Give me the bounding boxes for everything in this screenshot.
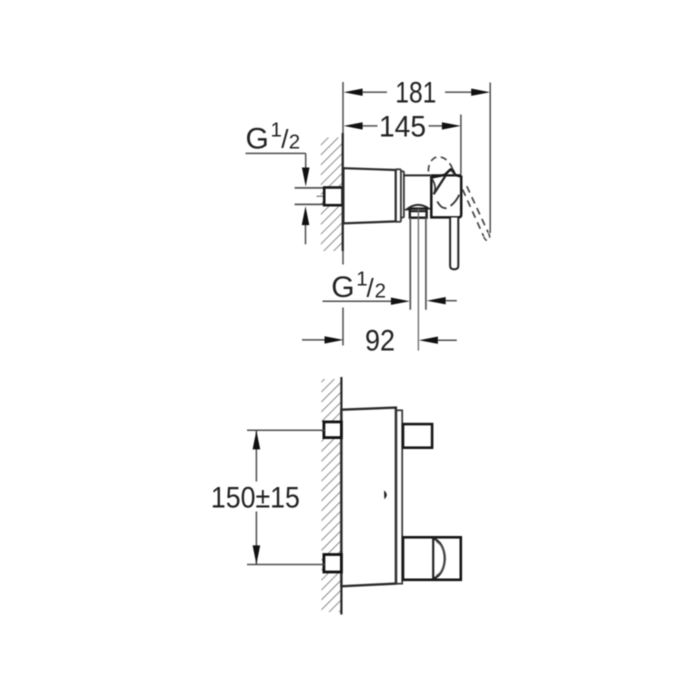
cartridge head with lever (solid)	[431, 169, 461, 217]
dimension 145 right arrow	[442, 122, 461, 129]
lever front curve	[432, 178, 436, 194]
G1/2 down arrow	[302, 168, 310, 187]
svg-text:145: 145	[379, 111, 426, 144]
inlet centerline dash	[317, 195, 325, 197]
bottom inlet nipple	[324, 555, 342, 573]
dimension 92 left tail	[302, 339, 325, 341]
G1/2 middle right tail	[446, 300, 457, 302]
G1/2 middle leader line	[323, 300, 392, 302]
svg-text:/: /	[367, 273, 375, 303]
dashed lever rod line 1	[463, 190, 484, 237]
neck top edge	[404, 174, 431, 176]
extension line right of 181	[489, 83, 491, 234]
svg-text:150±15: 150±15	[211, 482, 300, 515]
handle dome chord	[432, 539, 434, 579]
inlet nipple block	[324, 188, 342, 206]
mixer body (top view)	[343, 168, 395, 223]
dimension 150 top extension line	[247, 429, 325, 431]
outlet pipe right edge	[425, 218, 427, 310]
wall face / extension line	[342, 82, 344, 265]
dimension 145 line	[362, 125, 378, 127]
dimension 181 line	[362, 91, 387, 93]
G1/2 lower leader vertical	[305, 225, 307, 244]
head smile curve left	[437, 202, 446, 209]
dashed lever knob (up position)	[428, 157, 452, 172]
svg-text:181: 181	[395, 77, 436, 110]
faceplate band	[396, 410, 402, 583]
G1/2 leader underline	[246, 152, 306, 154]
head top edge line	[431, 174, 461, 176]
outlet nut	[410, 209, 427, 218]
inlet pipe bottom line	[295, 203, 325, 205]
outlet centerline	[417, 209, 419, 351]
head smile curve right	[451, 195, 460, 206]
neck bottom edge	[404, 209, 409, 211]
top inlet nipple	[324, 422, 342, 438]
wall face line	[340, 377, 342, 615]
G1/2 leader vertical	[305, 153, 307, 168]
head top-right curve	[451, 171, 455, 177]
dimension 181 right arrow	[471, 89, 490, 96]
lever diagonal edge	[434, 175, 446, 194]
dimension 150 bottom extension line	[247, 564, 325, 566]
wall hatching (top view)	[321, 138, 343, 252]
svg-text:2: 2	[289, 131, 300, 154]
body ring band	[396, 169, 404, 222]
svg-text:G: G	[331, 271, 354, 304]
svg-text:2: 2	[375, 280, 386, 303]
dimension 145 left arrow	[344, 122, 363, 129]
dashed lever rod line 2	[467, 186, 488, 232]
handle (bottom view)	[403, 537, 461, 580]
G1/2 middle left-pointing arrow	[427, 297, 446, 304]
G1/2 up arrow	[302, 206, 310, 225]
handle dome arc inner	[436, 542, 445, 576]
outlet dome cap	[408, 205, 429, 209]
outlet pipe left edge	[409, 218, 411, 310]
extension line right of 145	[460, 115, 462, 175]
svg-text:G: G	[246, 123, 269, 156]
G1/2 middle right-pointing arrow	[391, 298, 410, 305]
dimension 150 down arrow	[253, 545, 261, 564]
top connection block	[403, 424, 432, 448]
small marker dot on body	[384, 490, 387, 499]
dimension 150 up arrow	[253, 430, 261, 449]
wall hatching (bottom view)	[321, 379, 341, 612]
svg-text:92: 92	[365, 325, 395, 358]
inlet pipe top line	[295, 187, 325, 189]
svg-text:1: 1	[271, 119, 282, 142]
mixer body (bottom view)	[341, 408, 396, 587]
dimension 181 left arrow	[344, 89, 363, 96]
dimension 92 left arrow	[325, 336, 344, 343]
lever rod (solid, down position)	[450, 218, 458, 270]
dimension 92 right arrow	[419, 337, 438, 344]
dashed lever rod end cap	[484, 233, 490, 240]
dimension 92 right tail	[438, 339, 457, 341]
handle dome arc outer	[433, 539, 445, 579]
dimension 150 vertical line	[255, 430, 257, 481]
